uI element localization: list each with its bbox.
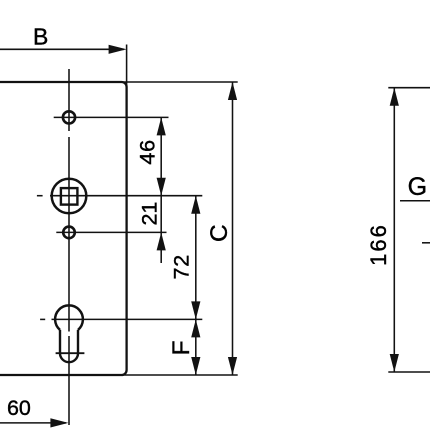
svg-text:60: 60 [7, 396, 31, 420]
svg-text:21: 21 [137, 202, 161, 226]
svg-text:C: C [206, 224, 233, 242]
svg-text:166: 166 [366, 223, 391, 266]
svg-text:B: B [33, 24, 48, 50]
svg-text:46: 46 [135, 139, 159, 165]
svg-text:F: F [168, 340, 195, 355]
svg-text:72: 72 [169, 254, 193, 280]
svg-text:G: G [408, 173, 427, 201]
